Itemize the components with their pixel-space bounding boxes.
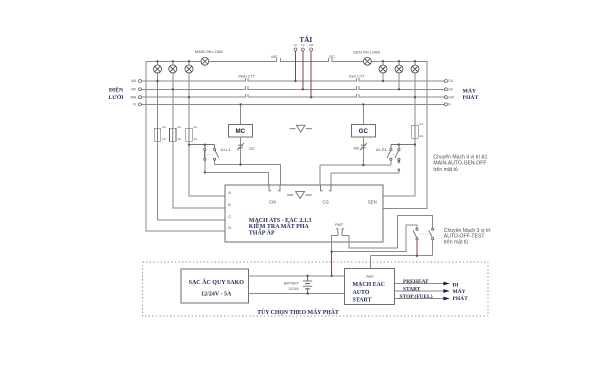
wire left riser (bus corner down to ATS N) — [146, 61, 225, 231]
node MV tap — [172, 88, 174, 90]
svg-text:MC: MC — [271, 54, 277, 59]
node bus j3 — [188, 60, 190, 62]
svg-text:MC: MC — [235, 128, 245, 135]
svg-text:Fa: Fa — [177, 125, 181, 129]
node LW tap — [310, 96, 312, 98]
box SAC AC QUY SAKO — [181, 269, 249, 303]
node A1L1 pole — [204, 144, 206, 146]
switch A1-R1 — [387, 148, 400, 170]
label Chuyen Mach 3 vi tri — [444, 227, 491, 245]
wire phase V (MV to GV) — [142, 88, 445, 90]
terminal GW — [444, 96, 447, 99]
node rail L1 MC — [239, 163, 241, 165]
terminal N grid — [139, 103, 142, 106]
node bus j4 — [382, 60, 384, 62]
fuse F3 (1A) — [186, 128, 193, 141]
battery symbol — [303, 276, 312, 294]
svg-text:Fa: Fa — [162, 125, 166, 129]
wire MC coil bottom — [240, 137, 242, 165]
box MACH EAC AUTO START — [344, 269, 394, 305]
wire PMT left to battery plus — [332, 233, 338, 252]
svg-text:N: N — [228, 226, 231, 230]
wire lamp drop 1 right (bus-lamp-GU) — [382, 61, 384, 81]
label Chuyen Mach 4 vi tri A1 — [433, 154, 487, 173]
node GV tap — [398, 88, 400, 90]
fuse F4 (2A gen) — [412, 125, 419, 138]
terminal GU — [444, 80, 447, 83]
wire lamp drop 2 right (bus-lamp-GV) — [398, 61, 400, 89]
svg-text:GW: GW — [448, 95, 454, 99]
lamp grid phase V — [169, 65, 177, 73]
switch AUTO-OFF-TEST — [413, 228, 434, 240]
box MACH ATS — [225, 185, 383, 242]
wire lamp drop 3 right (bus-lamp-GW-fuse-GEN input) — [383, 61, 415, 196]
svg-text:TÙY CHỌN THEO MÁY PHÁT: TÙY CHỌN THEO MÁY PHÁT — [257, 308, 339, 316]
lamp grid phase U — [154, 65, 162, 73]
arrow START — [443, 289, 450, 293]
wire load bus (top) — [146, 60, 427, 62]
svg-text:MÁY: MÁY — [463, 87, 477, 95]
svg-text:THẤP ÁP: THẤP ÁP — [249, 229, 275, 237]
svg-text:12/24V: 12/24V — [288, 287, 299, 291]
svg-text:LW: LW — [309, 43, 313, 47]
node A1R1 pole — [398, 143, 400, 145]
node MU tap — [156, 80, 158, 82]
node F4 feed — [414, 143, 416, 145]
arrow STOP — [443, 297, 450, 301]
fuse F1 (1A) — [154, 128, 161, 141]
svg-text:GC: GC — [359, 128, 369, 135]
svg-text:PHÁT: PHÁT — [463, 93, 479, 101]
node bus j1 — [156, 60, 158, 62]
svg-text:MC: MC — [354, 147, 360, 151]
wire lamp drop 3 left (bus-lamp-MW-fuse-A term) — [189, 61, 225, 196]
contact GC NC interlock — [237, 143, 244, 150]
lamp MAIN ON LOAD — [201, 57, 209, 65]
svg-text:MW: MW — [131, 95, 137, 99]
terminal GV — [444, 88, 447, 91]
wire PMT right to test switch — [342, 216, 433, 248]
arrow PREHEAT — [443, 282, 450, 286]
wire right riser (bus corner down to ATS load sense) — [383, 61, 427, 208]
node N GC coil — [362, 103, 364, 105]
node GW tap — [414, 96, 416, 98]
wire phase U (MU to GU) — [142, 80, 445, 82]
wire A1-L1 feed — [189, 145, 215, 149]
node LU tap — [294, 80, 296, 82]
contact CG — [321, 185, 332, 191]
wire START — [395, 290, 444, 292]
wire GC coil to N line — [362, 104, 364, 124]
svg-text:A1-L1: A1-L1 — [221, 148, 231, 152]
wire load V drop — [302, 51, 304, 89]
lamp gen phase U — [379, 65, 387, 73]
fuse F1 element — [157, 128, 159, 141]
Gen CTT ticks — [356, 78, 358, 97]
node GU tap — [382, 80, 384, 82]
svg-text:C: C — [228, 215, 231, 219]
svg-text:STOP (FUEL): STOP (FUEL) — [400, 293, 433, 300]
svg-text:A1-R1: A1-R1 — [376, 148, 387, 152]
node LV tap — [302, 88, 304, 90]
svg-text:LV: LV — [301, 43, 304, 47]
contact MC on bus (gap ticks) — [277, 59, 281, 62]
fuse F4 element — [414, 125, 416, 138]
node bus j5 — [398, 60, 400, 62]
terminal LW — [310, 48, 313, 51]
node rail L2 — [204, 171, 206, 173]
node batt plus — [306, 275, 308, 277]
terminal N gen — [444, 103, 447, 106]
svg-text:GC: GC — [249, 147, 255, 151]
svg-text:CM: CM — [269, 199, 276, 204]
wire battery plus rail — [249, 275, 345, 277]
terminal LV — [301, 48, 304, 51]
svg-text:CG: CG — [323, 199, 329, 204]
node batt minus — [306, 292, 308, 294]
svg-text:GU: GU — [448, 79, 453, 83]
svg-text:Gen CTT: Gen CTT — [349, 75, 365, 79]
wire lamp drop 2 left (bus-lamp-MV-fuse-B term) — [173, 61, 225, 208]
svg-text:PMT: PMT — [335, 223, 344, 227]
svg-text:MAIN-AUTO-GEN-OFF: MAIN-AUTO-GEN-OFF — [433, 161, 486, 167]
svg-text:SẠC ẮC QUY SAKO: SẠC ẮC QUY SAKO — [189, 278, 245, 286]
svg-text:START: START — [353, 297, 372, 303]
svg-text:BATTERY: BATTERY — [284, 282, 300, 286]
wire PREHEAT — [395, 283, 444, 285]
wire load W drop — [310, 51, 312, 97]
wire phase W (MW to GW) — [142, 96, 445, 98]
wire fuse F4 top — [414, 97, 416, 125]
svg-text:PMT: PMT — [366, 275, 374, 279]
node rail R1 GC — [362, 164, 364, 166]
svg-text:12/24V - 5A: 12/24V - 5A — [201, 292, 232, 298]
svg-text:LU: LU — [294, 43, 298, 47]
wire A1-R1 left pole bottom to rail R1 — [320, 161, 391, 186]
wire A1-L1 right pole bottom to rail L1 — [215, 161, 281, 186]
wire MC coil to N line — [240, 104, 242, 124]
svg-text:Fa: Fa — [194, 125, 198, 129]
svg-text:trên mặt tủ: trên mặt tủ — [444, 238, 469, 245]
svg-text:MAIN ON LOAD: MAIN ON LOAD — [195, 49, 224, 54]
svg-text:Main CTT: Main CTT — [238, 75, 255, 79]
wire test switch bottoms to EAC PMT input — [416, 240, 418, 256]
wire fuse F4 to A1-R1 feed junction handled above; fuse to GEN input — [414, 138, 416, 196]
node PMT batt — [331, 251, 333, 253]
symbol triangle between coils — [290, 125, 313, 132]
terminal MV — [139, 88, 142, 91]
contact MC NC interlock — [360, 143, 367, 150]
svg-text:ĐIỆN: ĐIỆN — [109, 85, 124, 93]
svg-text:GEN ON LOAD: GEN ON LOAD — [353, 49, 380, 54]
node test sw out — [416, 255, 418, 257]
wire A1-L1 left pole bottom to rail L2 — [205, 161, 269, 186]
svg-text:GC: GC — [329, 54, 335, 59]
lamp grid phase W — [185, 65, 193, 73]
Main CTT ticks — [246, 78, 248, 97]
wire load U drop — [295, 51, 297, 81]
box TUY CHON dashed — [142, 262, 488, 316]
wire A1-R1 feed — [391, 145, 415, 149]
svg-text:ĐI: ĐI — [453, 283, 459, 289]
terminal MW — [139, 96, 142, 99]
node bus j6 — [414, 60, 416, 62]
terminal LU — [294, 48, 297, 51]
wire test switch left pole feed — [332, 225, 417, 252]
node A1L1 feed — [188, 144, 190, 146]
lamp GEN ON LOAD — [364, 57, 372, 65]
fuse F3 element — [188, 128, 190, 141]
contact GC on bus (gap ticks) — [328, 59, 332, 62]
svg-text:trên mặt tủ: trên mặt tủ — [433, 166, 458, 173]
svg-text:PHÁT: PHÁT — [453, 294, 469, 302]
wire neutral N (grid to gen) — [142, 103, 445, 105]
contact CM — [269, 185, 280, 191]
node MW tap — [188, 96, 190, 98]
svg-text:MU: MU — [131, 79, 137, 83]
wire battery minus rail — [249, 293, 345, 295]
svg-text:Chuyển Mạch 4 vị trí A1: Chuyển Mạch 4 vị trí A1 — [433, 154, 487, 161]
wire A1-R1 right pole bottom to rail R2 — [331, 171, 399, 185]
terminal MU — [139, 80, 142, 83]
svg-text:Fa: Fa — [420, 122, 424, 126]
svg-text:MẠCH EAC: MẠCH EAC — [353, 282, 386, 288]
svg-text:AUTO: AUTO — [353, 290, 370, 296]
switch A1-L1 — [204, 148, 219, 160]
fuse F2 (1A) — [170, 128, 177, 141]
svg-text:KIỂM TRA MẤT PHA: KIỂM TRA MẤT PHA — [249, 222, 310, 230]
fuse F2 element — [172, 128, 174, 141]
contactor coil GC — [351, 124, 375, 136]
svg-text:START: START — [403, 287, 421, 293]
node bus j2 — [172, 60, 174, 62]
svg-text:MẠCH ATS - EAC 2.1.3: MẠCH ATS - EAC 2.1.3 — [249, 218, 312, 224]
svg-text:MÁY: MÁY — [453, 287, 466, 295]
wire GC coil bottom — [362, 137, 364, 165]
symbol triangle in ATS box — [287, 192, 312, 199]
svg-text:LƯỚI: LƯỚI — [109, 93, 125, 101]
svg-text:GEN: GEN — [368, 199, 377, 204]
node batt tap — [331, 275, 333, 277]
lamp gen phase V — [395, 65, 403, 73]
contactor coil MC — [228, 124, 252, 136]
lamp gen phase W — [411, 65, 419, 73]
svg-text:PREHEAT: PREHEAT — [403, 279, 429, 285]
node N MC coil — [239, 103, 241, 105]
wire STOP FUEL — [395, 298, 444, 300]
wire lamp drop 1 left (bus-lamp-MU-fuse-C term) — [158, 61, 226, 220]
